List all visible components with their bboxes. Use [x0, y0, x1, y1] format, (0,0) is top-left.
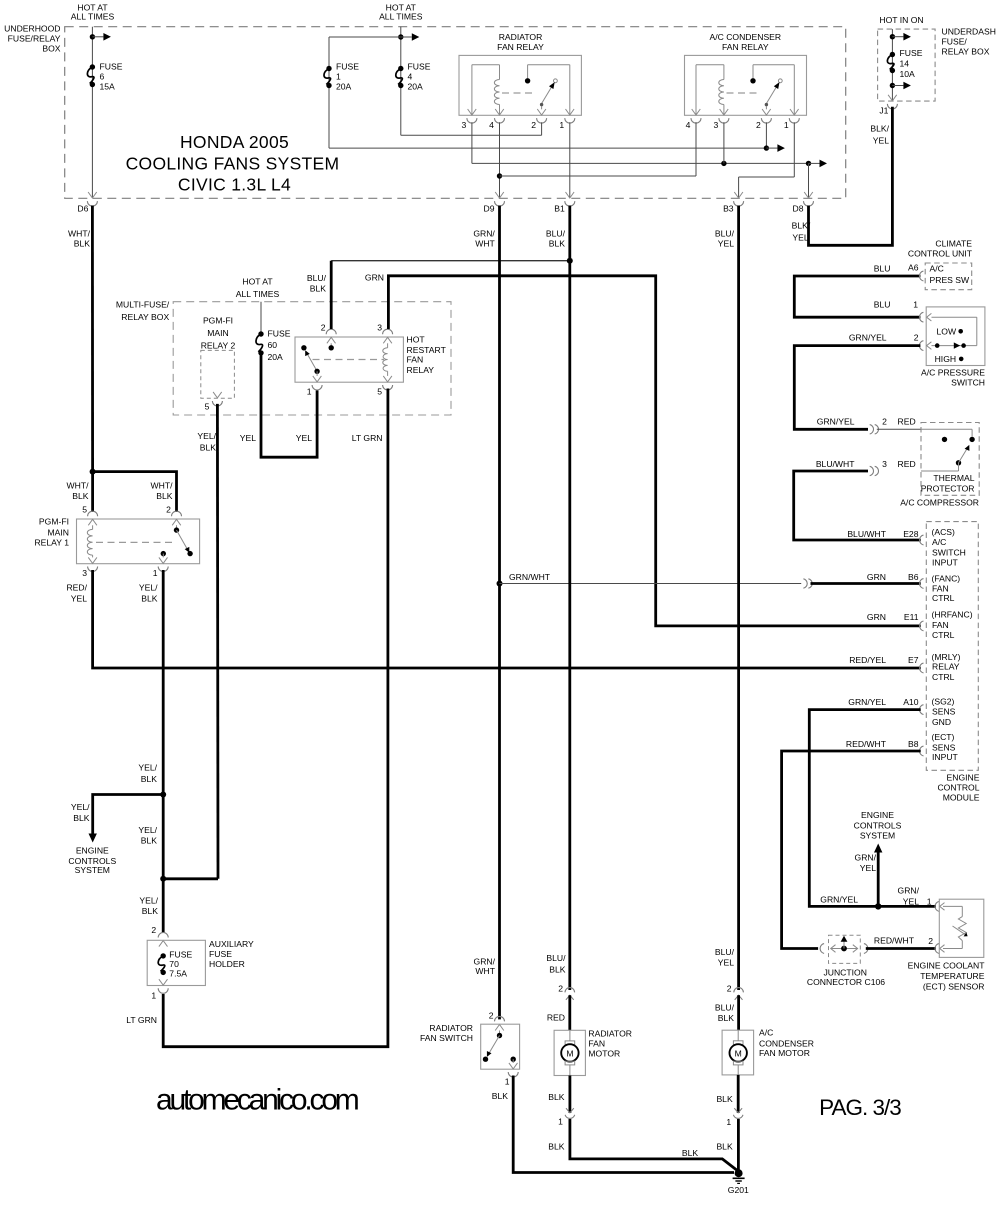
relay K1 pin 1 [559, 109, 574, 130]
wire BLK condenser motor to G201 [737, 1119, 740, 1170]
label ENGINE COOLANT TEMPERATURE (ECT) SENSOR [908, 961, 986, 992]
relay K1 pin 3 [462, 109, 477, 130]
svg-text:RED/WHT: RED/WHT [846, 739, 887, 749]
relay K1 coupling dashed line [502, 92, 536, 94]
label A/C COMPRESSOR [900, 498, 979, 508]
svg-text:INPUT: INPUT [932, 557, 959, 567]
svg-text:B1: B1 [554, 204, 565, 214]
svg-text:2: 2 [727, 984, 732, 994]
node junction on fuse 4 feed with branch arrow [398, 33, 419, 41]
label WHT/BLK (pin 5) [67, 481, 90, 501]
svg-text:GND: GND [932, 717, 951, 727]
wire BLU climate A6 to pressure switch pin 1 [794, 276, 920, 317]
svg-text:1: 1 [726, 1117, 731, 1127]
node junction on fuse 6 feed with branch arrow [90, 33, 111, 41]
net label HOT AT ALL TIMES (fuse 60) [236, 277, 280, 300]
ground G201 [733, 1169, 745, 1183]
label CLIMATE CONTROL UNIT [908, 239, 973, 259]
wire GRN/YEL pressure switch to thermal protector [794, 346, 920, 430]
svg-text:A/C: A/C [759, 1028, 773, 1038]
title HONDA 2005 COOLING FANS SYSTEM CIVIC 1.3L L4 [126, 132, 340, 195]
label WHT/BLK (pin 2) [151, 481, 174, 501]
relay K5 pin 1 [307, 376, 322, 397]
wire fuse 14 feed [891, 29, 893, 101]
thermal protector switch arm [956, 445, 970, 466]
relay K1 coil [494, 80, 499, 105]
svg-text:2: 2 [531, 120, 536, 130]
wire BLU/BLK branch B1 to K5 pin 2 [331, 261, 570, 329]
wire fuse 60 feed stub [260, 302, 262, 334]
label YEL/BLK (mid) [138, 825, 157, 846]
node junction GRN/YEL at engine controls branch [875, 903, 881, 909]
inline connector on thermal pin 2 wire [870, 425, 879, 434]
svg-text:3: 3 [377, 323, 382, 333]
connector pin B1 [554, 192, 575, 214]
auxiliary fuse holder body [147, 940, 205, 985]
svg-text:YEL: YEL [903, 896, 919, 906]
connector pin 1 aux fuse holder [151, 979, 168, 1000]
wire RED/WHT junction connector to ECT pin 2 [866, 947, 936, 950]
relay K3 throw contact to pin 1 [161, 551, 166, 558]
relay K5 pin 5 [377, 376, 392, 397]
svg-text:BLK: BLK [73, 813, 90, 823]
relay K5 coupling dashed line [313, 359, 385, 361]
svg-text:ALL TIMES: ALL TIMES [71, 12, 115, 22]
wire BLU/BLK to condenser fan motor [737, 995, 740, 1030]
label E11 (HRFANC) FAN CTRL [867, 610, 973, 640]
svg-text:B8: B8 [908, 739, 919, 749]
wire BLK radiator motor down [569, 1076, 572, 1114]
wire YEL fuse60 to relay pin 1 [261, 353, 317, 457]
A/C condenser fan motor M2 body [722, 1030, 754, 1075]
label YEL/BLK (relay2 wire) [197, 431, 216, 453]
svg-text:SWITCH: SWITCH [932, 547, 966, 557]
svg-text:UNDERHOOD: UNDERHOOD [4, 24, 60, 34]
net label HOT IN ON [879, 15, 923, 25]
wire fuse 4 feed [400, 27, 402, 136]
label GRN/YEL (A10 horizontal) [820, 894, 858, 904]
wire K2 pin4 to D9 junction [500, 122, 697, 176]
svg-text:BLU/: BLU/ [715, 1003, 735, 1013]
svg-text:1: 1 [336, 72, 341, 82]
svg-text:BLK: BLK [716, 1094, 733, 1104]
svg-text:BLU/WHT: BLU/WHT [847, 529, 886, 539]
svg-text:MULTI-FUSE/: MULTI-FUSE/ [116, 300, 170, 310]
label LT GRN (relay side) [352, 433, 383, 443]
fuse F4 20A [396, 66, 404, 88]
connector cup at pressure switch pin 1 [919, 312, 931, 322]
wire K1 pin1 to B1 [569, 122, 571, 198]
relay K2 A/C condenser fan relay body [685, 55, 807, 115]
svg-text:RELAY 2: RELAY 2 [201, 340, 236, 350]
wire branch to fuse 1 [329, 37, 401, 148]
label ENGINE CONTROL MODULE [937, 772, 979, 802]
svg-text:BLK: BLK [549, 965, 566, 975]
svg-text:ENGINE: ENGINE [947, 772, 980, 782]
connector pin B3 [723, 192, 744, 214]
label LT GRN (aux fuse side) [126, 1015, 157, 1025]
label FUSE 60 20A [268, 329, 291, 362]
wire GRN/YEL branch up to engine controls system [877, 853, 880, 907]
svg-text:RADIATOR: RADIATOR [588, 1028, 632, 1038]
svg-text:GRN/: GRN/ [898, 886, 920, 896]
label GRN/YEL 2 (pressure switch) [849, 333, 919, 343]
relay K3 coupling dashed line [96, 541, 172, 543]
svg-text:YEL: YEL [240, 433, 256, 443]
svg-text:FAN MOTOR: FAN MOTOR [759, 1048, 810, 1058]
svg-text:SYSTEM: SYSTEM [860, 831, 895, 841]
svg-text:FUSE: FUSE [169, 949, 192, 959]
label FUSE 70 7.5A [169, 949, 192, 978]
wire YEL/BLK relay2 pin5 down [216, 404, 219, 879]
svg-text:15A: 15A [100, 82, 116, 92]
svg-text:4: 4 [489, 120, 494, 130]
wire GRN K5 pin3 to ECM E11 [388, 276, 920, 626]
svg-text:RELAY 1: RELAY 1 [34, 537, 69, 547]
junction connector C106 internals [820, 936, 868, 954]
fan switch arm [487, 1036, 500, 1057]
svg-text:7.5A: 7.5A [169, 968, 187, 978]
label BLU/YEL (top) [715, 229, 735, 249]
svg-text:GRN/: GRN/ [473, 229, 495, 239]
label RED/WHT (B8 line) [874, 936, 933, 946]
ECT sensor body [939, 899, 984, 957]
thermal protector lower path [921, 463, 959, 471]
label RADIATOR FAN SWITCH [420, 1023, 473, 1043]
label GRN (K5 pin3) [365, 273, 384, 283]
svg-text:5: 5 [377, 387, 382, 397]
svg-text:GRN/YEL: GRN/YEL [820, 894, 858, 904]
label GRN/WHT (branch) [509, 572, 551, 582]
relay K1 pin 4 [489, 109, 504, 130]
svg-text:RED: RED [898, 459, 916, 469]
svg-text:RADIATOR: RADIATOR [499, 32, 543, 42]
svg-text:BLU/: BLU/ [715, 229, 735, 239]
svg-text:MAIN: MAIN [48, 528, 69, 538]
relay K5 hot restart fan relay body [295, 337, 403, 382]
wire LT GRN relay pin5 down to aux fuse [163, 389, 388, 1047]
label MULTI-FUSE/RELAY BOX [116, 300, 170, 322]
underhood fuse/relay box (dashed enclosure) [65, 27, 846, 199]
svg-text:FUSE: FUSE [900, 48, 923, 58]
label A/C CONDENSER FAN RELAY [709, 32, 781, 52]
svg-text:(ECT) SENSOR: (ECT) SENSOR [923, 981, 985, 991]
svg-text:BLK: BLK [141, 774, 158, 784]
label B8 (ECT) SENS INPUT [846, 732, 959, 762]
svg-text:14: 14 [900, 59, 910, 69]
connector cup at ECT pin 1 [935, 902, 945, 912]
wire GRN to ECM B6 (thick) [811, 582, 921, 585]
label FUSE 14 10A [900, 48, 923, 79]
connector cup at A6 [919, 271, 923, 281]
svg-text:PGM-FI: PGM-FI [39, 517, 69, 527]
pressure switch LOW contact [937, 326, 964, 336]
svg-text:THERMAL: THERMAL [933, 473, 974, 483]
svg-text:FAN: FAN [932, 620, 949, 630]
relay K5 throw contact [301, 345, 306, 350]
svg-text:RED: RED [898, 417, 916, 427]
svg-text:FAN RELAY: FAN RELAY [722, 42, 769, 52]
label A/C PRES SW [930, 264, 971, 286]
relay K2 fixed contact [750, 78, 755, 83]
wire BLK fan switch to G201 [513, 1076, 734, 1173]
svg-text:PAG. 3/3: PAG. 3/3 [819, 1095, 901, 1120]
svg-text:YEL: YEL [873, 136, 889, 146]
inline connector 1 radiator motor [558, 1108, 575, 1126]
label GRN/WHT (bottom) [474, 957, 496, 977]
relay K5 pin 3 [377, 323, 392, 344]
svg-text:PRES SW: PRES SW [930, 275, 971, 285]
multi-fuse/relay box (dashed enclosure) [173, 302, 451, 415]
node junction below fuse 14 with arrow [890, 82, 911, 90]
svg-text:JUNCTION: JUNCTION [823, 967, 866, 977]
connector cup at pressure switch pin 2 [919, 341, 931, 351]
svg-text:BLK: BLK [716, 1141, 733, 1151]
label HOT RESTART FAN RELAY [407, 334, 447, 375]
wire RED into thermal protector [877, 428, 921, 430]
svg-text:2: 2 [914, 333, 919, 343]
svg-text:4: 4 [408, 72, 413, 82]
ECM pin A10 cup [919, 705, 923, 715]
svg-text:D8: D8 [793, 204, 804, 214]
svg-text:A/C PRESSURE: A/C PRESSURE [921, 367, 985, 377]
label YEL (fuse side) [240, 433, 256, 443]
wire YEL/BLK branch to engine controls system [93, 795, 164, 834]
svg-text:YEL: YEL [860, 863, 876, 873]
svg-text:HIGH: HIGH [935, 354, 956, 364]
svg-text:BLK: BLK [156, 491, 173, 501]
pressure switch common contacts and arrow [935, 342, 966, 348]
svg-text:A10: A10 [903, 697, 919, 707]
node junction GRN/WHT to FANC [497, 581, 503, 587]
label BLU A6 [874, 263, 919, 274]
wire YEL/BLK junction to relay2 wire [163, 877, 218, 880]
svg-text:(HRFANC): (HRFANC) [932, 610, 973, 620]
svg-text:YEL: YEL [718, 958, 734, 968]
svg-text:RELAY BOX: RELAY BOX [942, 47, 990, 57]
svg-text:WHT: WHT [475, 966, 495, 976]
fuse F1 20A [324, 66, 332, 88]
svg-text:A/C: A/C [932, 537, 946, 547]
svg-text:RELAY BOX: RELAY BOX [121, 312, 169, 322]
svg-text:YEL/: YEL/ [138, 763, 157, 773]
svg-text:70: 70 [169, 959, 179, 969]
svg-text:HOT AT: HOT AT [242, 277, 273, 287]
svg-text:1: 1 [505, 1076, 510, 1086]
label BLK (radiator motor lower) [548, 1141, 565, 1151]
svg-text:GRN/: GRN/ [474, 957, 496, 967]
relay K1 pin 2 [531, 109, 546, 130]
svg-text:(FANC): (FANC) [932, 573, 961, 583]
fuse F14 10A [887, 52, 895, 73]
svg-text:GRN: GRN [867, 572, 886, 582]
label AUXILIARY FUSE HOLDER [209, 939, 254, 969]
svg-text:WHT/: WHT/ [68, 229, 91, 239]
wire fuse 6 feed [91, 27, 93, 198]
label PGM-FI MAIN RELAY 1 [34, 517, 69, 548]
engine control module (dashed box) [926, 522, 978, 771]
watermark automecanico.com [156, 1084, 359, 1117]
wire WHT/BLK to relay pin 5 [91, 472, 94, 512]
svg-text:M: M [566, 1048, 573, 1058]
label A/C CONDENSER FAN MOTOR [759, 1028, 814, 1058]
label BLK/YEL (D8) [792, 221, 811, 243]
wire BLU/YEL from B3 [737, 206, 740, 991]
relay K1 radiator fan relay body [459, 55, 581, 115]
relay K2 coil [719, 80, 724, 105]
svg-text:PROTECTOR: PROTECTOR [921, 484, 975, 494]
svg-text:CLIMATE: CLIMATE [935, 239, 972, 249]
label UNDERDASH FUSE/RELAY BOX [942, 27, 996, 57]
wire RED to radiator fan motor [568, 995, 571, 1030]
label BLU/YEL (bottom) [715, 947, 735, 968]
svg-text:2: 2 [558, 984, 563, 994]
label GRN/WHT (top) [473, 229, 495, 249]
relay K1 fixed contact [525, 78, 530, 83]
wire RED/WHT B8 to junction connector [782, 751, 921, 949]
svg-text:3: 3 [462, 120, 467, 130]
relay K4 pin 5 [205, 392, 223, 412]
wire WHT/BLK branch to relay pin 2 [93, 472, 177, 512]
label YEL/BLK (aux fuse) [139, 896, 158, 917]
svg-text:LT GRN: LT GRN [126, 1015, 157, 1025]
svg-text:ENGINE: ENGINE [861, 810, 894, 820]
svg-text:FUSE: FUSE [408, 62, 431, 72]
svg-text:(ECT): (ECT) [932, 732, 955, 742]
svg-text:1: 1 [784, 120, 789, 130]
svg-text:A/C CONDENSER: A/C CONDENSER [709, 32, 781, 42]
svg-text:20A: 20A [336, 82, 352, 92]
svg-text:HOT: HOT [407, 334, 426, 344]
svg-text:GRN/: GRN/ [855, 853, 877, 863]
relay K1 internal frame (pins 3-4) [472, 65, 500, 115]
svg-text:BLK: BLK [141, 836, 158, 846]
svg-text:E7: E7 [908, 655, 919, 665]
net label HOT AT ALL TIMES (fuse 6) [71, 3, 115, 22]
svg-text:D6: D6 [77, 204, 88, 214]
wire YEL/BLK to aux fuse holder [162, 795, 165, 934]
connector pin D6 [77, 192, 97, 214]
svg-text:PGM-FI: PGM-FI [203, 315, 233, 325]
label BLK (radiator motor) [548, 1092, 565, 1102]
svg-text:CONTROL: CONTROL [937, 782, 979, 792]
svg-text:A/C COMPRESSOR: A/C COMPRESSOR [900, 498, 979, 508]
svg-text:BLU: BLU [874, 264, 891, 274]
svg-text:RED: RED [547, 1013, 565, 1023]
label GRN/YEL 1 (ECT pin 1) [898, 886, 932, 907]
svg-text:E28: E28 [903, 529, 919, 539]
wire fuse4 to K1 pin2 [401, 122, 542, 135]
svg-text:5: 5 [82, 505, 87, 515]
node junction above fuse 14 with arrow [890, 33, 911, 41]
wire WHT/BLK from D6 [91, 206, 94, 472]
svg-text:ALL TIMES: ALL TIMES [236, 289, 280, 299]
label RED (radiator fan motor) [547, 1013, 565, 1023]
label ENGINE CONTROLS SYSTEM (left) [68, 845, 116, 875]
label RED/YEL (E7 line) [0, 0, 1, 1]
svg-text:SWITCH: SWITCH [951, 378, 985, 388]
svg-text:FAN SWITCH: FAN SWITCH [420, 1033, 473, 1043]
ECT thermistor [943, 906, 968, 948]
svg-text:SYSTEM: SYSTEM [75, 865, 110, 875]
wire GRN/WHT from D9 [498, 206, 501, 1020]
ECM pin E7 cup [919, 663, 923, 673]
svg-text:1: 1 [307, 387, 312, 397]
label FUSE 4 20A [408, 62, 431, 92]
node junction WHT/BLK split [90, 469, 96, 475]
svg-text:BLK/: BLK/ [870, 124, 889, 134]
svg-text:WHT/: WHT/ [151, 481, 174, 491]
svg-text:COOLING FANS SYSTEM: COOLING FANS SYSTEM [126, 154, 340, 174]
svg-text:BOX: BOX [42, 44, 60, 54]
svg-text:SENS: SENS [932, 707, 956, 717]
relay K4 PGM-FI main relay 2 (dashed outline) [201, 350, 235, 398]
A/C pressure switch body [926, 307, 985, 366]
svg-text:J1: J1 [879, 106, 888, 116]
svg-text:ALL TIMES: ALL TIMES [379, 12, 423, 22]
relay K5 pin 2 [321, 323, 336, 344]
svg-text:(ACS): (ACS) [932, 527, 956, 537]
thermal protector upper contact [921, 429, 975, 442]
svg-text:GRN/WHT: GRN/WHT [509, 572, 551, 582]
fan switch contact to pin 1 [511, 1057, 516, 1064]
node junction YEL/BLK engine controls branch [160, 792, 166, 798]
svg-text:BLU/WHT: BLU/WHT [816, 459, 855, 469]
svg-text:3: 3 [82, 568, 87, 578]
svg-text:CONTROLS: CONTROLS [854, 820, 902, 830]
svg-text:FAN RELAY: FAN RELAY [497, 42, 544, 52]
relay K3 switch arm [177, 530, 193, 556]
svg-text:BLK: BLK [492, 1091, 509, 1101]
label BLU/BLK (top) [546, 229, 566, 249]
label GRN/YEL 2 RED (thermal) [817, 417, 916, 427]
pressure switch internal frame [932, 317, 977, 345]
relay K1 contact frame (pins 2-1) [528, 65, 570, 115]
label PGM-FI MAIN RELAY 2 [201, 315, 236, 350]
svg-text:MOTOR: MOTOR [588, 1049, 620, 1059]
svg-text:BLU/: BLU/ [307, 273, 327, 283]
svg-text:RED/: RED/ [66, 583, 87, 593]
wire K1 pin3 to D8 [472, 122, 809, 163]
svg-text:E11: E11 [904, 612, 919, 622]
svg-text:MODULE: MODULE [943, 793, 980, 803]
svg-text:YEL/: YEL/ [138, 825, 157, 835]
svg-text:20A: 20A [268, 352, 284, 362]
svg-text:BLK: BLK [142, 906, 159, 916]
svg-text:YEL: YEL [718, 239, 734, 249]
label UNDERHOOD FUSE/RELAY BOX [4, 24, 61, 54]
label E7 (MRLY) RELAY CTRL [849, 652, 960, 682]
wire D8 drop [808, 163, 810, 198]
thermal protector free contact [942, 437, 947, 442]
label BLU/BLK (condenser motor) [715, 1003, 735, 1023]
svg-text:WHT/: WHT/ [67, 481, 90, 491]
svg-text:60: 60 [268, 340, 278, 350]
relay K2 internal frame (pins 4-3) [696, 65, 724, 115]
svg-text:6: 6 [100, 72, 105, 82]
junction connector C106 (dashed box) [829, 935, 861, 963]
svg-text:2: 2 [882, 417, 887, 427]
node junction YEL/BLK relay2 wire [160, 876, 166, 882]
svg-text:RELAY: RELAY [407, 365, 435, 375]
svg-text:YEL: YEL [792, 233, 808, 243]
radiator fan switch SW1 body [481, 1024, 520, 1069]
svg-text:1: 1 [558, 1116, 563, 1126]
svg-text:BLK: BLK [548, 1141, 565, 1151]
svg-text:FAN: FAN [932, 583, 949, 593]
svg-text:CTRL: CTRL [932, 593, 955, 603]
svg-text:GRN/YEL: GRN/YEL [817, 417, 855, 427]
